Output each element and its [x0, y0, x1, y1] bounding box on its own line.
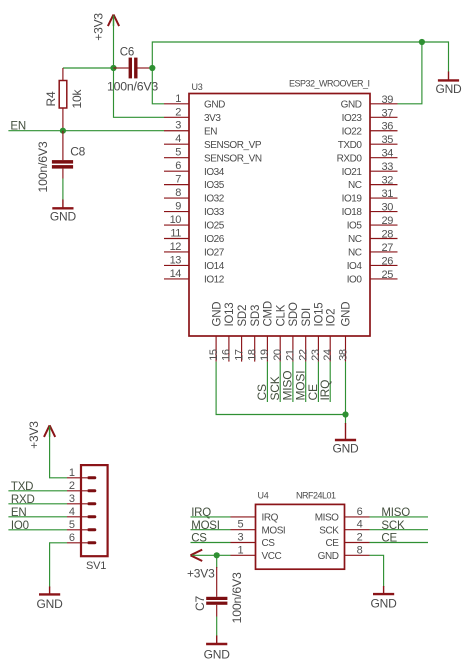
svg-text:GND: GND: [204, 647, 231, 661]
svg-text:6: 6: [69, 532, 75, 544]
svg-text:IO23: IO23: [342, 113, 363, 124]
wire MISO from U4: [370, 516, 429, 518]
svg-text:5: 5: [237, 519, 243, 531]
svg-text:IO0: IO0: [11, 520, 29, 532]
svg-text:MISO: MISO: [315, 513, 339, 524]
svg-text:SDO: SDO: [288, 302, 300, 326]
pin 10 (IO25) U3 left: [164, 214, 225, 232]
pin 15 (GND) U3 bottom: [208, 302, 223, 362]
ground (U3 bottom): [332, 423, 359, 456]
wire IO0 to SV1 pin 5: [8, 529, 67, 531]
wire +3V3 to SV1 pin 1: [50, 428, 67, 478]
pin 18 (SD3) U3 bottom: [247, 305, 262, 362]
pin 34 (RXD0) U3 right: [337, 148, 398, 165]
wire EN to pin 3: [8, 130, 164, 132]
wire net CE from pin 23: [317, 362, 319, 402]
+3V3 supply symbol (U4, pointing left): [191, 550, 203, 561]
svg-text:10: 10: [170, 214, 182, 226]
svg-text:7: 7: [175, 174, 181, 186]
pin 1 SV1: [67, 467, 96, 479]
node VCC/C7 junction: [214, 552, 220, 558]
pin 7 (IRQ) U4 left: [231, 513, 279, 524]
pin 2 (CE) U4 right: [326, 532, 370, 550]
pin 6 SV1: [67, 532, 96, 544]
svg-text:3V3: 3V3: [204, 113, 221, 124]
pin 9 (IO33) U3 left: [164, 201, 225, 219]
pin 4 (SENSOR_VP) U3 left: [164, 133, 262, 151]
pin 33 (IO21) U3 right: [342, 161, 398, 178]
wire net SCK from pin 20: [279, 362, 281, 402]
wire net MISO from pin 21: [292, 362, 294, 402]
+3V3 supply symbol (top): [108, 15, 119, 27]
svg-text:3: 3: [237, 532, 243, 544]
wire C6 right up and across to top-right: [152, 42, 422, 68]
svg-text:IO22: IO22: [342, 126, 363, 137]
wire RXD to SV1 pin 3: [8, 503, 67, 505]
wire +3V3 vertical to pin 2 row: [114, 18, 165, 118]
svg-text:1: 1: [69, 467, 75, 479]
svg-text:U4: U4: [258, 491, 269, 501]
ground (U4): [371, 586, 398, 610]
svg-text:GND: GND: [332, 442, 359, 456]
svg-text:10k: 10k: [70, 89, 84, 109]
svg-text:EN: EN: [204, 126, 217, 137]
op-amp U4 NRF24L01 body: [256, 504, 345, 569]
resistor R4: [59, 68, 67, 131]
wire U4 pin 8 to ground: [370, 555, 384, 587]
pin 32 (NC) U3 right: [348, 175, 398, 192]
svg-text:C7: C7: [193, 596, 207, 611]
svg-text:GND: GND: [341, 99, 362, 110]
svg-text:13: 13: [170, 254, 182, 266]
node top-right junction: [419, 39, 425, 45]
capacitor C8: [52, 131, 73, 179]
svg-text:4: 4: [175, 133, 181, 145]
svg-text:TXD0: TXD0: [338, 140, 363, 151]
+3V3 supply symbol (SV1): [44, 425, 55, 437]
wire C8 to ground: [62, 179, 64, 201]
svg-text:IO35: IO35: [204, 180, 225, 191]
svg-text:100n/6V3: 100n/6V3: [230, 572, 244, 623]
svg-text:21: 21: [285, 349, 297, 361]
svg-text:2: 2: [69, 480, 75, 492]
svg-text:CMD: CMD: [263, 301, 275, 326]
pin 24 (IO2) U3 bottom: [322, 309, 337, 362]
svg-text:5: 5: [175, 147, 181, 159]
svg-text:SD2: SD2: [237, 305, 249, 327]
svg-text:NC: NC: [348, 234, 362, 245]
pin 22 (SDI) U3 bottom: [298, 308, 313, 362]
connector SV1 body: [81, 465, 108, 556]
svg-text:IO13: IO13: [224, 303, 236, 327]
pin 27 (NC) U3 right: [348, 242, 398, 259]
svg-text:IO2: IO2: [325, 309, 337, 327]
ground (top right): [435, 72, 462, 97]
wire TXD to SV1 pin 2: [8, 490, 67, 492]
pin 19 (CMD) U3 bottom: [259, 301, 274, 362]
svg-text:IO21: IO21: [342, 167, 363, 178]
wire SCK from U4: [370, 529, 429, 531]
svg-text:3: 3: [175, 120, 181, 132]
svg-text:IO5: IO5: [347, 221, 363, 232]
svg-text:IO34: IO34: [204, 167, 225, 178]
pin 3 SV1: [67, 493, 96, 505]
svg-text:38: 38: [337, 349, 349, 361]
svg-text:33: 33: [382, 161, 394, 173]
pin 3 (EN) U3 left: [164, 120, 217, 138]
svg-text:8: 8: [175, 187, 181, 199]
svg-text:ESP32_WROOVER_I: ESP32_WROOVER_I: [289, 79, 370, 89]
svg-text:EN: EN: [11, 507, 27, 519]
pin 3 (CS) U4 left: [231, 532, 276, 550]
ground (C8): [50, 200, 77, 224]
pin 31 (IO19) U3 right: [342, 188, 398, 205]
svg-text:31: 31: [382, 188, 394, 200]
svg-text:GND: GND: [37, 597, 64, 611]
pin 5 (SENSOR_VN) U3 left: [164, 147, 262, 165]
pin 17 (SD2) U3 bottom: [233, 305, 248, 362]
svg-text:C6: C6: [120, 46, 134, 58]
svg-text:IO33: IO33: [204, 207, 225, 218]
node bottom ground junction: [342, 411, 348, 417]
pin 30 (IO18) U3 right: [342, 202, 398, 219]
svg-text:GND: GND: [435, 82, 462, 96]
pin 8 (IO32) U3 left: [164, 187, 225, 205]
pin 26 (IO4) U3 right: [347, 255, 398, 272]
svg-text:8: 8: [357, 544, 363, 556]
svg-text:SD3: SD3: [250, 305, 262, 327]
svg-text:RXD: RXD: [11, 494, 35, 506]
svg-text:SDI: SDI: [301, 308, 313, 326]
svg-text:1: 1: [175, 93, 181, 105]
svg-text:6: 6: [175, 160, 181, 172]
svg-text:19: 19: [259, 349, 271, 361]
svg-text:16: 16: [221, 349, 233, 361]
wire VCC to U4: [192, 554, 231, 556]
svg-text:CE: CE: [326, 538, 340, 549]
pin 6 (MISO) U4 right: [315, 506, 370, 524]
svg-text:+3V3: +3V3: [92, 13, 106, 41]
svg-text:SENSOR_VP: SENSOR_VP: [204, 140, 262, 151]
wire +3V3 to R4 top: [63, 67, 114, 69]
svg-text:22: 22: [298, 349, 310, 361]
pin 21 (SDO) U3 bottom: [285, 302, 300, 362]
svg-text:IO0: IO0: [347, 275, 363, 286]
wire junction to ground: [345, 415, 347, 425]
pin 12 (IO27) U3 left: [164, 241, 225, 259]
svg-text:100n/6V3: 100n/6V3: [107, 80, 158, 94]
pin 4 (SCK) U4 right: [319, 519, 369, 537]
svg-text:3: 3: [69, 493, 75, 505]
svg-text:1: 1: [237, 544, 243, 556]
svg-text:U3: U3: [192, 82, 203, 92]
wire net IRQ from pin 24: [329, 362, 331, 402]
svg-text:MOSI: MOSI: [262, 525, 286, 536]
capacitor C6: [114, 58, 153, 79]
pin 25 (IO0) U3 right: [347, 269, 398, 286]
svg-text:NRF24L01: NRF24L01: [296, 491, 336, 501]
svg-text:IO4: IO4: [347, 261, 363, 272]
svg-text:GND: GND: [318, 551, 339, 562]
wire C7 to ground: [216, 617, 218, 637]
svg-text:IO12: IO12: [204, 275, 225, 286]
pin 1 (GND) U3 left: [164, 93, 225, 111]
pin 37 (IO23) U3 right: [342, 107, 398, 124]
svg-text:100n/6V3: 100n/6V3: [36, 141, 50, 192]
svg-text:GND: GND: [204, 99, 225, 110]
wire net CS from pin 19: [266, 362, 268, 402]
svg-text:GND: GND: [50, 209, 77, 223]
pin 39 (GND) U3 right: [341, 94, 398, 111]
pin 8 (GND) U4 right: [318, 544, 370, 562]
wire VCC junction down to C7: [216, 555, 218, 568]
svg-text:2: 2: [357, 532, 363, 544]
svg-text:23: 23: [310, 349, 322, 361]
svg-text:37: 37: [382, 107, 394, 119]
svg-text:35: 35: [382, 134, 394, 146]
pin 5 (MOSI) U4 left: [231, 519, 286, 537]
svg-text:C8: C8: [70, 145, 85, 159]
capacitor C7: [206, 567, 227, 617]
svg-text:26: 26: [382, 255, 394, 267]
pin 2 (3V3) U3 left: [164, 106, 221, 124]
pin 5 SV1: [67, 519, 96, 531]
svg-text:IO27: IO27: [204, 248, 225, 259]
svg-text:14: 14: [170, 268, 182, 280]
svg-text:GND: GND: [341, 302, 353, 327]
svg-text:RXD0: RXD0: [337, 153, 363, 164]
pin 36 (IO22) U3 right: [342, 121, 398, 138]
svg-text:IO26: IO26: [204, 234, 225, 245]
svg-text:11: 11: [170, 228, 181, 240]
svg-text:SV1: SV1: [86, 560, 106, 572]
svg-text:28: 28: [382, 229, 394, 241]
wire MOSI to U4: [191, 529, 231, 531]
pin 20 (CLK) U3 bottom: [272, 304, 287, 361]
node +3V3/C6 junction: [110, 65, 116, 71]
pin 13 (IO14) U3 left: [164, 254, 225, 272]
wire pin 15 to bottom ground rail: [216, 362, 345, 415]
svg-text:4: 4: [357, 519, 363, 531]
svg-text:TXD: TXD: [11, 481, 33, 493]
svg-text:9: 9: [175, 201, 181, 213]
svg-text:IO19: IO19: [342, 194, 363, 205]
wire CE from U4: [370, 542, 429, 544]
svg-text:NC: NC: [348, 248, 362, 259]
pin 14 (IO12) U3 left: [164, 268, 225, 286]
wire net MOSI from pin 22: [305, 362, 307, 402]
svg-text:39: 39: [382, 94, 394, 106]
svg-text:+3V3: +3V3: [27, 421, 41, 449]
svg-text:12: 12: [170, 241, 182, 253]
svg-text:29: 29: [382, 215, 394, 227]
pin 29 (IO5) U3 right: [347, 215, 398, 232]
svg-text:36: 36: [382, 121, 394, 133]
svg-text:IRQ: IRQ: [318, 380, 332, 401]
node EN/R4/C8 junction: [60, 128, 66, 134]
svg-text:GND: GND: [211, 302, 223, 327]
svg-text:VCC: VCC: [262, 551, 282, 562]
node C6 right junction (GND net): [149, 65, 155, 71]
svg-text:4: 4: [69, 506, 75, 518]
svg-text:32: 32: [382, 175, 394, 187]
pin 2 SV1: [67, 480, 96, 492]
svg-text:18: 18: [247, 349, 259, 361]
svg-text:17: 17: [233, 349, 245, 361]
wire SV1 pin 6 to ground: [50, 543, 67, 588]
wire C6 right down to pin 1 (GND): [152, 68, 164, 104]
pin 4 SV1: [67, 506, 96, 518]
svg-text:2: 2: [175, 106, 181, 118]
ground (SV1): [37, 587, 64, 612]
wire junction down to pin 39: [398, 42, 422, 104]
svg-text:+3V3: +3V3: [187, 567, 215, 581]
svg-text:IO14: IO14: [204, 261, 225, 272]
pin 28 (NC) U3 right: [348, 229, 398, 246]
wire EN to SV1 pin 4: [8, 516, 67, 518]
svg-text:IO18: IO18: [342, 207, 363, 218]
svg-text:NC: NC: [348, 180, 362, 191]
pin 38 (GND) U3 bottom: [337, 302, 352, 362]
svg-text:CLK: CLK: [275, 304, 287, 326]
wire junction to top-right ground: [422, 42, 449, 72]
pin 6 (IO34) U3 left: [164, 160, 225, 178]
pin 16 (IO13) U3 bottom: [221, 303, 236, 362]
pin 7 (IO35) U3 left: [164, 174, 225, 192]
pin 1 (VCC) U4 left: [231, 544, 282, 562]
wire CS to U4: [191, 542, 231, 544]
svg-text:IO25: IO25: [204, 221, 225, 232]
svg-text:27: 27: [382, 242, 394, 254]
svg-text:IRQ: IRQ: [262, 513, 279, 524]
svg-text:25: 25: [382, 269, 394, 281]
svg-text:30: 30: [382, 202, 394, 214]
svg-text:R4: R4: [44, 91, 58, 106]
svg-text:CS: CS: [262, 538, 276, 549]
pin 11 (IO26) U3 left: [164, 228, 225, 246]
pin 35 (TXD0) U3 right: [338, 134, 398, 151]
svg-text:6: 6: [357, 506, 363, 518]
svg-text:SENSOR_VN: SENSOR_VN: [204, 153, 262, 164]
svg-text:GND: GND: [371, 596, 398, 610]
op-amp U3 ESP32 module body: [189, 94, 370, 337]
svg-text:20: 20: [272, 349, 284, 361]
pin 23 (IO15) U3 bottom: [310, 303, 325, 362]
svg-text:SCK: SCK: [319, 525, 339, 536]
svg-text:24: 24: [322, 349, 334, 361]
svg-text:15: 15: [208, 349, 220, 361]
svg-text:5: 5: [69, 519, 75, 531]
svg-text:IO15: IO15: [314, 303, 326, 327]
ground (C7): [204, 636, 231, 662]
wire pin 38 down to ground rail: [345, 362, 347, 415]
svg-text:IO32: IO32: [204, 194, 225, 205]
svg-text:34: 34: [382, 148, 394, 160]
wire IRQ to U4: [191, 516, 231, 518]
